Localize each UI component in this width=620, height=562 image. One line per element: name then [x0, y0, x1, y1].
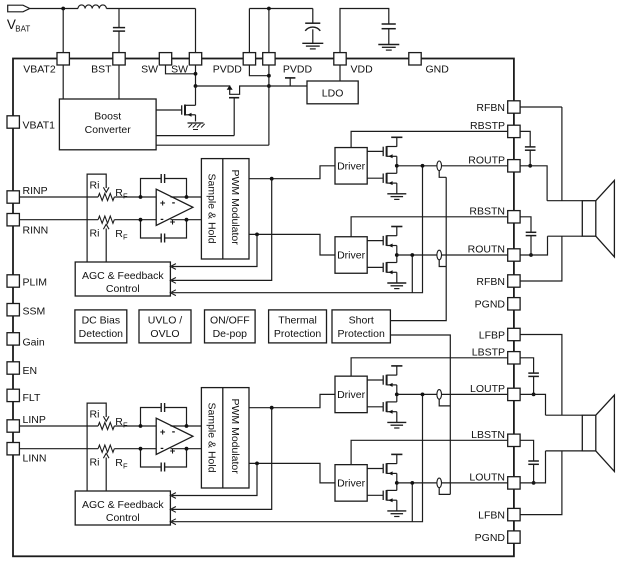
svg-text:ON/OFF: ON/OFF — [210, 314, 250, 326]
svg-text:Protection: Protection — [338, 328, 385, 340]
svg-text:PWM Modulator: PWM Modulator — [229, 170, 241, 246]
svg-text:Control: Control — [106, 283, 140, 295]
svg-text:AGC & Feedback: AGC & Feedback — [82, 499, 164, 511]
svg-text:LINP: LINP — [23, 414, 46, 426]
svg-text:ROUTP: ROUTP — [468, 154, 505, 166]
svg-text:VBAT1: VBAT1 — [23, 120, 56, 132]
svg-text:EN: EN — [23, 365, 38, 377]
svg-text:LDO: LDO — [322, 88, 344, 100]
svg-text:DC Bias: DC Bias — [82, 314, 121, 326]
svg-text:F: F — [123, 192, 128, 201]
svg-text:UVLO /: UVLO / — [148, 314, 183, 326]
svg-text:FLT: FLT — [23, 392, 41, 404]
svg-text:De-pop: De-pop — [213, 328, 248, 340]
svg-text:Converter: Converter — [85, 124, 132, 136]
svg-text:OVLO: OVLO — [150, 328, 179, 340]
svg-text:VDD: VDD — [351, 64, 374, 76]
svg-text:RINP: RINP — [23, 185, 48, 197]
svg-text:-: - — [160, 442, 164, 454]
svg-text:PGND: PGND — [475, 532, 506, 544]
svg-text:BAT: BAT — [15, 24, 30, 33]
svg-text:Ri: Ri — [90, 408, 100, 420]
svg-text:RBSTP: RBSTP — [470, 120, 505, 132]
svg-text:AGC & Feedback: AGC & Feedback — [82, 270, 164, 282]
svg-text:Sample & Hold: Sample & Hold — [205, 174, 217, 244]
svg-text:F: F — [123, 462, 128, 471]
svg-text:F: F — [123, 421, 128, 430]
svg-text:Ri: Ri — [90, 228, 100, 240]
svg-text:PWM Modulator: PWM Modulator — [229, 399, 241, 475]
svg-text:Ri: Ri — [90, 179, 100, 191]
svg-text:+: + — [170, 446, 176, 457]
svg-text:SSM: SSM — [23, 306, 46, 318]
svg-text:-: - — [172, 425, 176, 437]
svg-text:Thermal: Thermal — [278, 314, 317, 326]
svg-text:-: - — [172, 196, 176, 208]
svg-text:RINN: RINN — [23, 225, 49, 237]
svg-text:PVDD: PVDD — [213, 64, 243, 76]
svg-text:BST: BST — [91, 64, 112, 76]
svg-text:Driver: Driver — [337, 250, 366, 262]
svg-text:GND: GND — [426, 64, 450, 76]
svg-text:LFBP: LFBP — [479, 329, 505, 341]
svg-text:PGND: PGND — [475, 299, 506, 311]
svg-text:PVDD: PVDD — [283, 64, 313, 76]
svg-text:Gain: Gain — [23, 337, 45, 349]
svg-text:+: + — [170, 217, 176, 228]
svg-text:RBSTN: RBSTN — [469, 205, 505, 217]
svg-text:Driver: Driver — [337, 161, 366, 173]
svg-text:Protection: Protection — [274, 328, 321, 340]
svg-text:VBAT2: VBAT2 — [23, 64, 56, 76]
svg-text:LBSTP: LBSTP — [472, 346, 505, 358]
svg-text:RFBN: RFBN — [476, 102, 505, 114]
svg-text:Boost: Boost — [94, 111, 121, 123]
svg-text:SW: SW — [141, 64, 158, 76]
svg-text:Driver: Driver — [337, 389, 366, 401]
svg-text:RFBN: RFBN — [476, 276, 505, 288]
svg-text:Short: Short — [349, 314, 374, 326]
svg-text:Driver: Driver — [337, 478, 366, 490]
svg-text:LOUTP: LOUTP — [470, 383, 505, 395]
svg-text:PLIM: PLIM — [23, 277, 48, 289]
svg-text:Ri: Ri — [90, 457, 100, 469]
svg-text:LOUTN: LOUTN — [469, 471, 505, 483]
svg-text:-: - — [160, 213, 164, 225]
svg-text:ROUTN: ROUTN — [468, 244, 505, 256]
svg-text:LBSTN: LBSTN — [471, 429, 505, 441]
svg-text:Detection: Detection — [79, 328, 124, 340]
svg-text:F: F — [123, 233, 128, 242]
svg-text:Control: Control — [106, 512, 140, 524]
svg-text:+: + — [160, 198, 166, 209]
svg-text:SW: SW — [171, 64, 188, 76]
svg-text:+: + — [160, 427, 166, 438]
svg-text:LFBN: LFBN — [478, 509, 505, 521]
svg-text:Sample & Hold: Sample & Hold — [205, 403, 217, 473]
svg-text:LINN: LINN — [23, 453, 47, 465]
